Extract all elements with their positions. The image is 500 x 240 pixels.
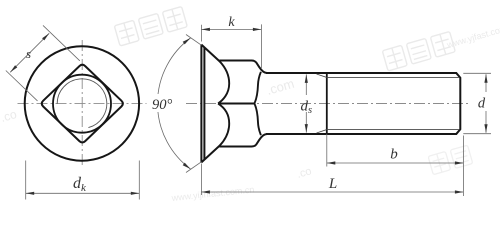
square corner edge on axis	[218, 103, 255, 105]
k dimension line	[201, 28, 261, 30]
s extension line upper	[43, 25, 80, 60]
d dimension line upper	[485, 74, 487, 92]
head face outer line	[200, 44, 202, 162]
cone edge bottom thin extension	[186, 162, 201, 173]
L arrow left	[201, 190, 210, 193]
thread major circle	[53, 75, 111, 133]
ds arrow down	[305, 124, 308, 133]
90 deg arc arrow bottom	[183, 163, 191, 169]
90 deg label background	[151, 94, 179, 112]
shank-square intersection curve top	[254, 72, 261, 104]
90 deg dimension arc	[157, 38, 190, 169]
watermark logo top-center	[114, 7, 187, 46]
s arrow lower	[10, 65, 17, 72]
dk extension left	[25, 161, 27, 200]
neck ridge top and descent to shank	[219, 61, 267, 74]
svg-text:s: s	[26, 46, 31, 61]
d arrow up	[484, 74, 487, 83]
cone-square intersection curve top	[218, 61, 229, 103]
k extension right	[260, 24, 262, 68]
k extension left	[200, 25, 202, 42]
thread minor line top	[327, 76, 460, 78]
svg-text:b: b	[390, 147, 398, 163]
svg-text:L: L	[328, 176, 337, 192]
b dimension line	[327, 162, 464, 164]
square neck (diamond)	[42, 65, 123, 143]
cone-square intersection curve bottom	[218, 104, 229, 146]
L dimension line	[201, 191, 463, 193]
s extension line lower	[6, 71, 38, 101]
d dimension line lower	[485, 111, 487, 133]
neck ridge bottom and ascent to shank	[219, 134, 267, 147]
watermark logo top-right	[382, 32, 455, 71]
svg-text:90°: 90°	[152, 97, 173, 113]
shank top line	[266, 73, 460, 134]
svg-text:k: k	[228, 15, 235, 30]
k arrow left	[201, 28, 210, 31]
90 deg arc arrow top	[183, 38, 191, 44]
ds arrow up	[305, 74, 308, 83]
svg-text:d: d	[478, 96, 486, 112]
thread runout bottom	[317, 130, 327, 133]
dk extension right	[138, 161, 140, 200]
dk dimension line	[26, 192, 140, 194]
centerline axis	[186, 103, 470, 105]
d extension top	[463, 72, 491, 74]
thread runout top	[317, 74, 327, 77]
centerline vertical	[81, 40, 83, 168]
head face inner line	[203, 47, 205, 159]
b arrow left	[327, 161, 336, 164]
ds dimension line upper	[305, 74, 307, 95]
b arrow right	[455, 161, 464, 164]
thread minor line bottom	[327, 129, 460, 131]
d extension bottom	[463, 133, 491, 135]
L arrow right	[455, 190, 464, 193]
b and L extension right	[462, 136, 464, 197]
s dimension line	[10, 33, 49, 72]
d arrow down	[484, 124, 487, 133]
dk arrow left	[26, 192, 35, 195]
L extension left	[200, 164, 202, 196]
cone edge bottom	[201, 146, 219, 163]
dk arrow right	[131, 192, 140, 195]
s arrow upper	[42, 33, 49, 40]
k arrow right	[253, 28, 262, 31]
thread start line	[326, 73, 328, 133]
thread minor arc (3/4)	[57, 79, 107, 128]
cone edge top	[201, 45, 219, 62]
watermark logo bottom-right	[428, 145, 473, 175]
centerline horizontal	[18, 103, 147, 105]
shank-square intersection curve bottom	[254, 104, 261, 136]
head outer circle dk	[25, 46, 139, 160]
b extension left thin	[326, 134, 328, 167]
ds dimension line lower	[305, 112, 307, 133]
cone edge top thin extension	[186, 35, 201, 46]
